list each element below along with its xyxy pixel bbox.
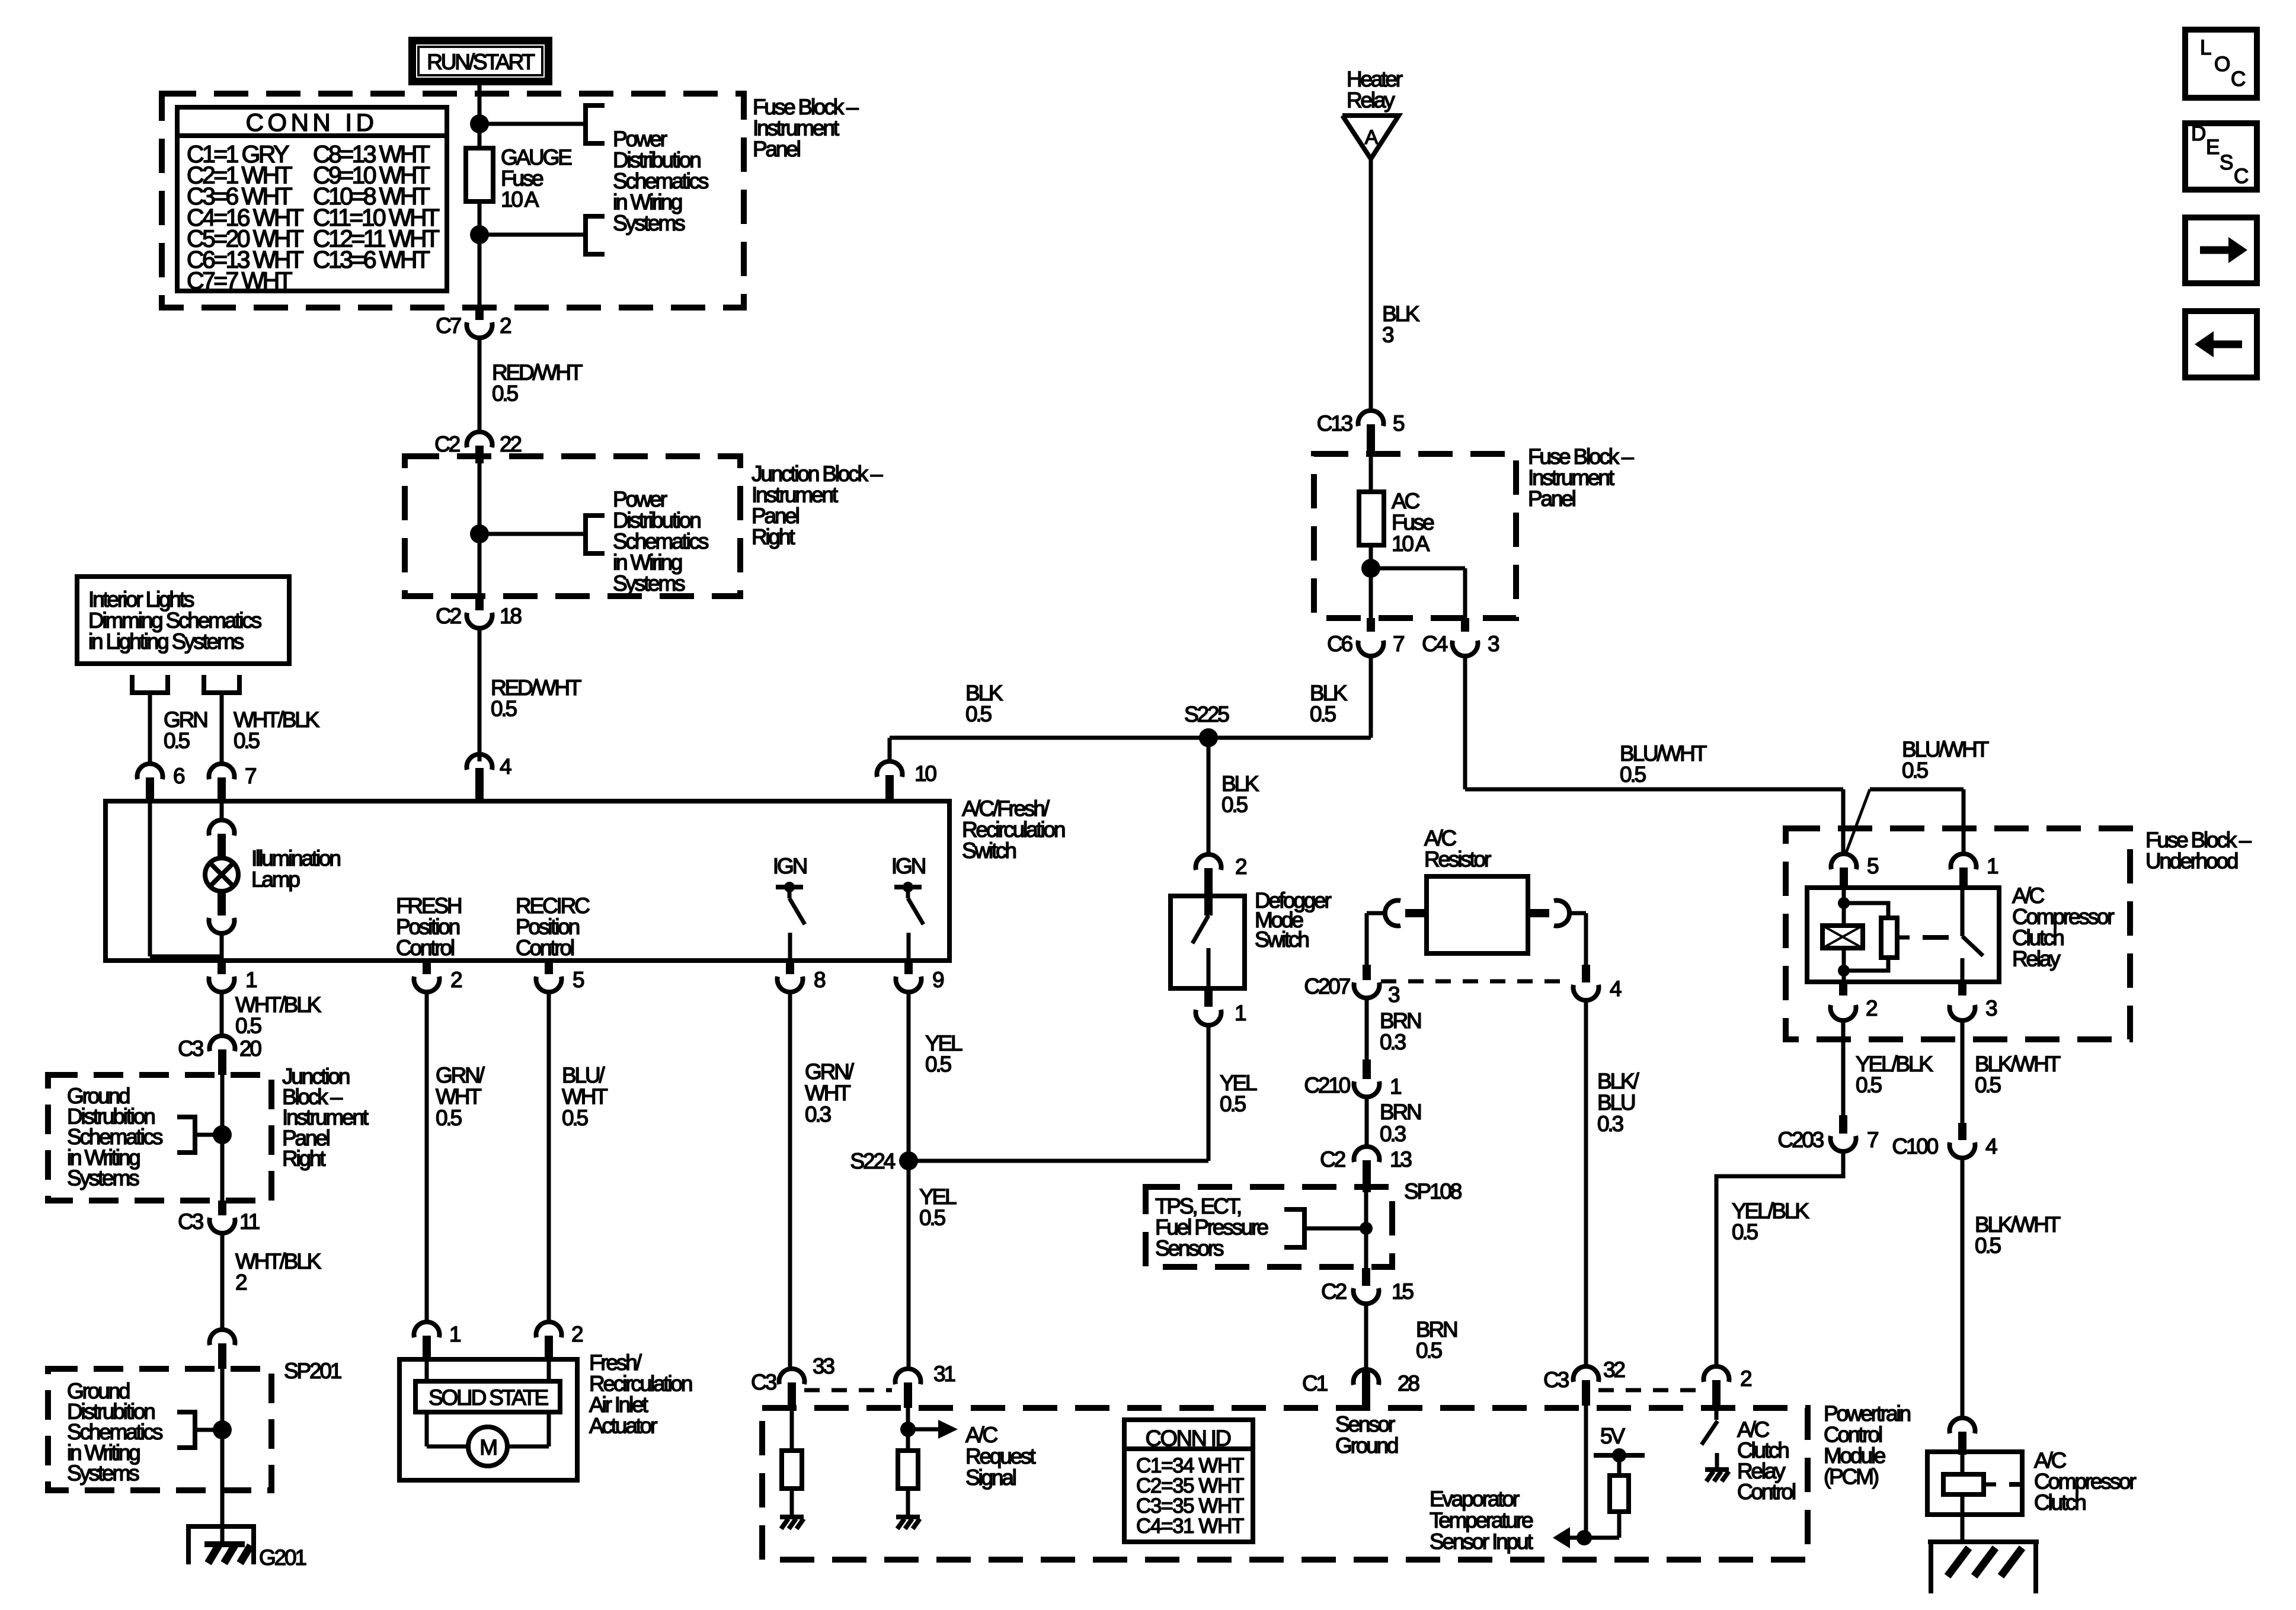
svg-text:0.3: 0.3 — [1380, 1122, 1405, 1146]
svg-text:9: 9 — [932, 968, 944, 992]
svg-text:Clutch: Clutch — [2034, 1490, 2086, 1515]
svg-text:5: 5 — [573, 968, 584, 992]
svg-text:2: 2 — [1740, 1366, 1751, 1391]
svg-text:1: 1 — [449, 1322, 461, 1346]
svg-text:0.5: 0.5 — [1416, 1339, 1442, 1363]
svg-text:0.5: 0.5 — [1620, 763, 1646, 787]
svg-text:0.5: 0.5 — [1732, 1220, 1758, 1244]
svg-text:A: A — [1365, 126, 1379, 149]
svg-text:Control: Control — [1737, 1480, 1795, 1504]
svg-text:C2: C2 — [434, 432, 460, 456]
svg-text:Systems: Systems — [67, 1461, 139, 1485]
svg-text:IGN: IGN — [891, 854, 925, 878]
svg-text:C100: C100 — [1892, 1134, 1938, 1158]
svg-text:M: M — [479, 1435, 496, 1459]
svg-text:C3: C3 — [751, 1370, 776, 1394]
svg-text:8: 8 — [814, 968, 825, 992]
svg-text:Sensor: Sensor — [1335, 1412, 1395, 1436]
svg-text:7: 7 — [245, 764, 256, 788]
svg-text:0.5: 0.5 — [492, 382, 518, 406]
svg-text:C: C — [2231, 68, 2245, 91]
svg-text:0.5: 0.5 — [1310, 702, 1336, 726]
svg-text:2: 2 — [500, 313, 511, 338]
svg-text:33: 33 — [813, 1354, 834, 1378]
svg-text:WHT: WHT — [436, 1084, 481, 1109]
svg-text:3: 3 — [1488, 632, 1499, 656]
svg-text:WHT: WHT — [805, 1081, 850, 1105]
svg-text:C2: C2 — [1320, 1147, 1345, 1172]
svg-text:BRN: BRN — [1380, 1009, 1421, 1033]
svg-text:C13=6 WHT: C13=6 WHT — [313, 246, 430, 273]
svg-text:20: 20 — [239, 1036, 261, 1061]
svg-text:G201: G201 — [259, 1545, 306, 1570]
svg-text:0.5: 0.5 — [1975, 1234, 2001, 1258]
svg-text:32: 32 — [1603, 1358, 1625, 1382]
svg-text:22: 22 — [500, 432, 521, 456]
svg-text:O: O — [2214, 53, 2230, 76]
svg-text:7: 7 — [1867, 1128, 1878, 1152]
svg-text:2: 2 — [1235, 854, 1246, 879]
svg-text:BLU: BLU — [1597, 1090, 1635, 1115]
svg-text:E: E — [2206, 136, 2219, 159]
svg-text:SOLID STATE: SOLID STATE — [428, 1385, 548, 1410]
svg-text:C4: C4 — [1422, 632, 1448, 656]
svg-text:Control: Control — [396, 936, 454, 960]
svg-text:Right: Right — [752, 525, 795, 549]
svg-text:0.5: 0.5 — [235, 1014, 261, 1038]
svg-text:Switch: Switch — [962, 838, 1016, 863]
svg-text:Resistor: Resistor — [1424, 847, 1491, 872]
svg-text:10 A: 10 A — [1392, 532, 1430, 556]
svg-text:C210: C210 — [1304, 1073, 1350, 1097]
svg-text:Evaporator: Evaporator — [1430, 1487, 1520, 1511]
svg-text:BLU/: BLU/ — [562, 1063, 605, 1087]
svg-text:0.5: 0.5 — [164, 729, 190, 753]
svg-text:C3: C3 — [178, 1209, 203, 1234]
svg-text:Underhood: Underhood — [2145, 849, 2238, 873]
svg-text:0.5: 0.5 — [1902, 758, 1928, 783]
svg-text:0.5: 0.5 — [491, 697, 517, 721]
svg-text:C203: C203 — [1777, 1128, 1823, 1152]
svg-text:Relay: Relay — [2012, 947, 2061, 971]
svg-text:Lamp: Lamp — [251, 868, 300, 892]
svg-text:Signal: Signal — [965, 1465, 1016, 1490]
svg-text:WHT/BLK: WHT/BLK — [235, 1249, 322, 1273]
svg-text:C4=31 WHT: C4=31 WHT — [1136, 1515, 1244, 1538]
svg-text:Systems: Systems — [67, 1166, 139, 1190]
svg-text:7: 7 — [1393, 632, 1404, 656]
svg-text:0.5: 0.5 — [436, 1106, 462, 1130]
svg-text:CONN ID: CONN ID — [1146, 1426, 1231, 1451]
svg-text:5V: 5V — [1600, 1424, 1625, 1448]
svg-text:IGN: IGN — [773, 854, 807, 878]
svg-text:Request: Request — [965, 1444, 1036, 1468]
svg-text:0.3: 0.3 — [1380, 1030, 1405, 1054]
svg-text:GRN/: GRN/ — [805, 1060, 855, 1084]
svg-text:0.5: 0.5 — [1856, 1073, 1882, 1097]
svg-text:2: 2 — [1866, 996, 1877, 1020]
svg-text:Switch: Switch — [1255, 927, 1309, 952]
svg-text:S225: S225 — [1184, 702, 1229, 726]
svg-text:C2: C2 — [1321, 1279, 1347, 1304]
svg-text:SP108: SP108 — [1404, 1179, 1462, 1204]
svg-text:18: 18 — [500, 604, 521, 628]
svg-text:0.5: 0.5 — [925, 1052, 951, 1077]
svg-text:C207: C207 — [1304, 974, 1350, 998]
svg-text:2: 2 — [450, 968, 462, 992]
svg-text:C13: C13 — [1317, 411, 1352, 436]
svg-text:(PCM): (PCM) — [1824, 1465, 1879, 1489]
svg-text:1: 1 — [1987, 854, 1998, 878]
svg-text:13: 13 — [1390, 1147, 1411, 1172]
svg-text:Actuator: Actuator — [589, 1414, 657, 1438]
svg-text:15: 15 — [1392, 1279, 1414, 1304]
svg-text:BLK/: BLK/ — [1597, 1069, 1639, 1093]
svg-text:S224: S224 — [850, 1149, 895, 1173]
svg-text:WHT: WHT — [562, 1084, 607, 1109]
svg-text:Right: Right — [282, 1146, 326, 1170]
svg-text:C3: C3 — [1543, 1368, 1569, 1392]
svg-text:10: 10 — [914, 761, 936, 786]
svg-text:C7=7 WHT: C7=7 WHT — [187, 267, 293, 295]
svg-text:0.5: 0.5 — [965, 702, 992, 726]
svg-text:Fuse: Fuse — [1392, 510, 1434, 534]
svg-text:1: 1 — [1235, 1001, 1246, 1025]
svg-text:3: 3 — [1985, 996, 1997, 1020]
svg-text:Temperature: Temperature — [1430, 1508, 1533, 1532]
svg-text:5: 5 — [1393, 411, 1405, 436]
svg-text:SP201: SP201 — [284, 1359, 341, 1383]
svg-text:C2: C2 — [436, 604, 461, 628]
svg-text:0.5: 0.5 — [919, 1206, 945, 1230]
svg-text:5: 5 — [1867, 854, 1879, 878]
svg-text:Sensors: Sensors — [1155, 1236, 1224, 1260]
svg-text:AC: AC — [1392, 489, 1419, 513]
svg-text:1: 1 — [245, 968, 257, 992]
svg-text:3: 3 — [1382, 323, 1393, 347]
svg-text:Sensor Input: Sensor Input — [1430, 1529, 1533, 1554]
svg-text:4: 4 — [1610, 977, 1622, 1001]
svg-text:C7: C7 — [436, 313, 461, 338]
svg-text:Panel: Panel — [1528, 486, 1575, 511]
svg-text:C1: C1 — [1302, 1371, 1328, 1395]
svg-text:C3: C3 — [178, 1036, 203, 1061]
svg-text:0.5: 0.5 — [562, 1106, 588, 1130]
svg-text:1: 1 — [1390, 1074, 1401, 1099]
svg-text:3: 3 — [1388, 982, 1399, 1007]
svg-text:0.5: 0.5 — [1975, 1073, 2001, 1097]
svg-text:Systems: Systems — [613, 571, 685, 596]
svg-text:Ground: Ground — [1335, 1433, 1398, 1458]
svg-text:4: 4 — [500, 754, 511, 779]
svg-text:0.5: 0.5 — [1220, 1092, 1246, 1116]
svg-text:RUN/START: RUN/START — [427, 50, 535, 74]
svg-text:4: 4 — [1985, 1134, 1997, 1158]
svg-text:Panel: Panel — [753, 137, 800, 161]
svg-text:6: 6 — [173, 764, 184, 788]
svg-text:2: 2 — [571, 1322, 583, 1346]
svg-text:Relay: Relay — [1347, 88, 1395, 113]
svg-text:0.3: 0.3 — [805, 1102, 830, 1126]
svg-text:10 A: 10 A — [501, 187, 539, 212]
svg-text:Control: Control — [516, 936, 574, 960]
svg-text:31: 31 — [933, 1362, 955, 1386]
svg-text:A/C: A/C — [965, 1423, 998, 1447]
svg-text:0.5: 0.5 — [234, 729, 260, 753]
svg-text:CONN ID: CONN ID — [246, 108, 378, 136]
svg-text:C: C — [2234, 165, 2248, 188]
svg-text:2: 2 — [235, 1270, 247, 1295]
svg-text:D: D — [2191, 122, 2205, 145]
svg-text:S: S — [2220, 151, 2233, 174]
svg-text:C6: C6 — [1327, 632, 1352, 656]
svg-text:28: 28 — [1398, 1371, 1419, 1395]
svg-text:in Lighting Systems: in Lighting Systems — [88, 629, 244, 654]
svg-text:BRN: BRN — [1380, 1100, 1421, 1124]
svg-text:Systems: Systems — [613, 211, 685, 235]
svg-text:0.3: 0.3 — [1597, 1112, 1623, 1136]
svg-text:0.5: 0.5 — [1221, 793, 1248, 817]
svg-text:L: L — [2200, 36, 2211, 59]
svg-text:11: 11 — [239, 1209, 260, 1234]
svg-text:GRN/: GRN/ — [436, 1063, 485, 1087]
